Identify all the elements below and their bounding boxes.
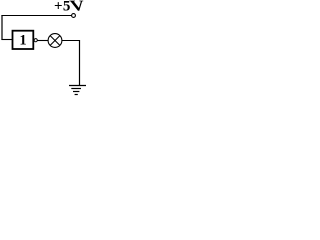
- wire gate output to lamp: [37, 40, 48, 42]
- lamp DS1: [48, 34, 62, 48]
- node +5V terminal: [72, 14, 76, 18]
- svg-text:1: 1: [19, 32, 26, 48]
- wire lamp to ground: [62, 40, 80, 42]
- svg-text:+5: +5: [54, 0, 71, 15]
- gate U1 bubble: [34, 39, 37, 42]
- gate U1: [13, 31, 34, 49]
- svg-text:V: V: [68, 0, 86, 14]
- wire feedback left vertical: [1, 15, 3, 40]
- ground: [69, 85, 89, 87]
- wire gate input: [1, 39, 12, 41]
- wire feedback top: [1, 15, 71, 17]
